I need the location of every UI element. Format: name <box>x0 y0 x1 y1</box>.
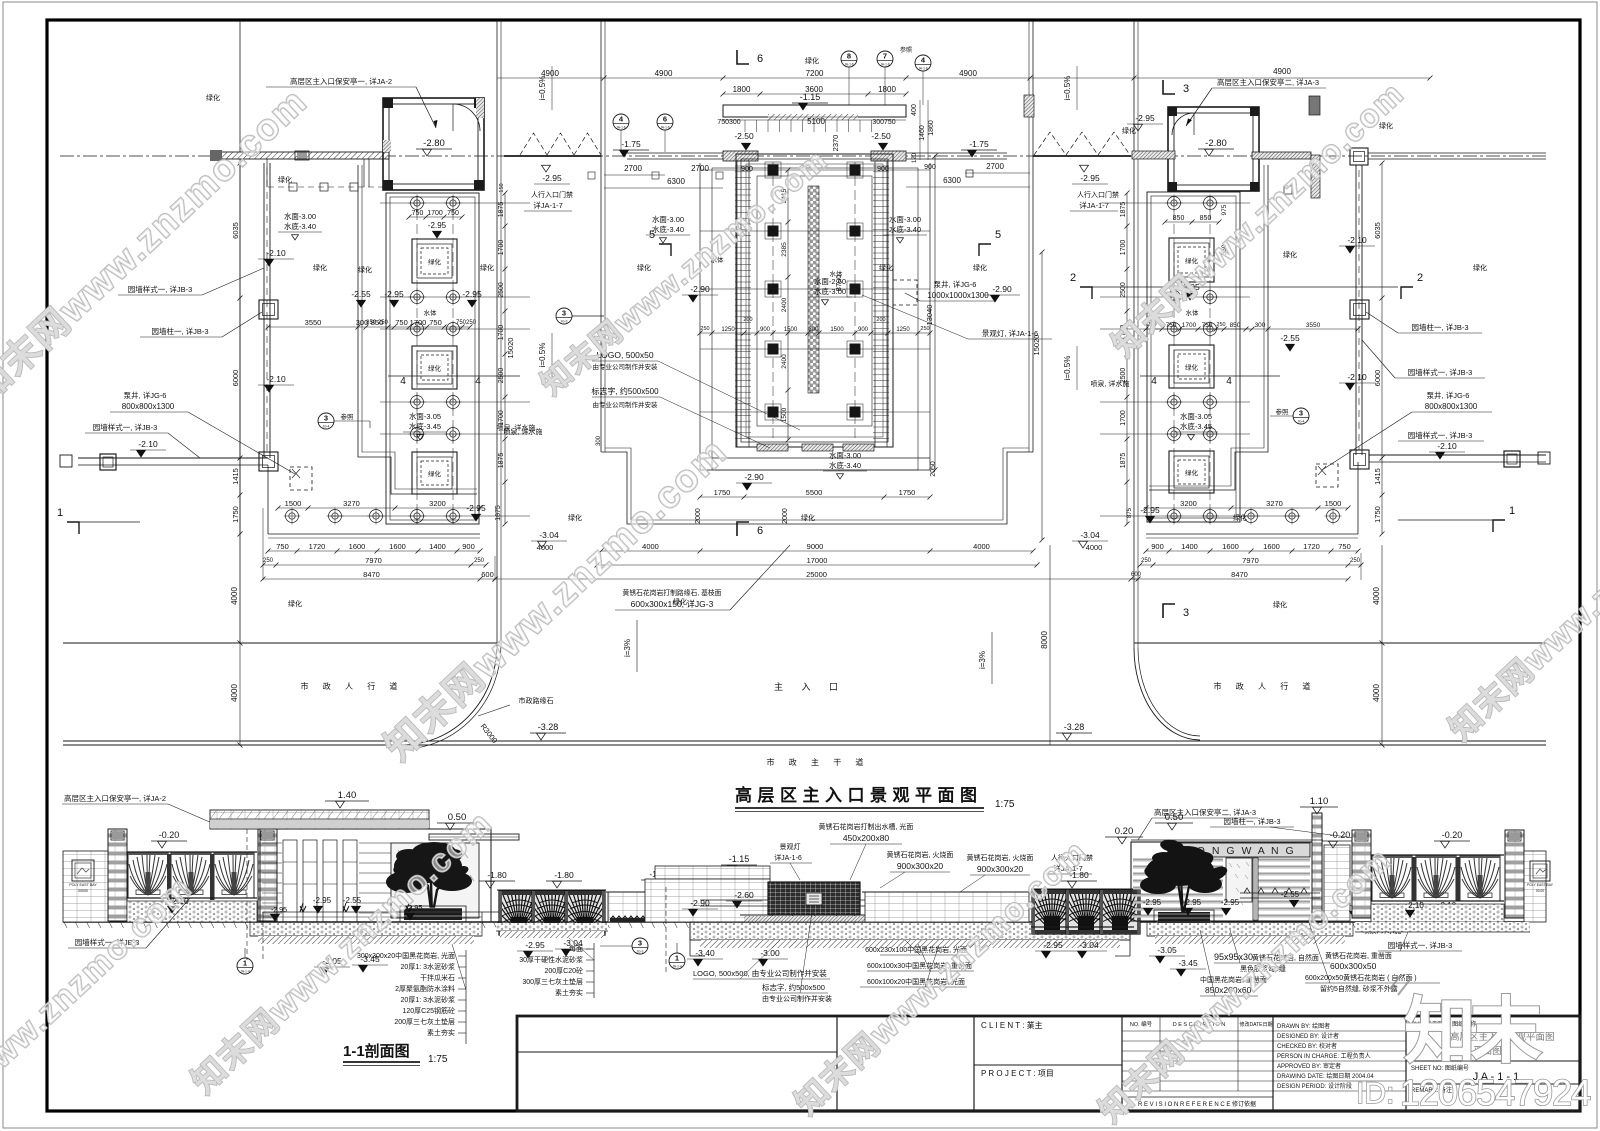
svg-text:水面-3.00: 水面-3.00 <box>829 450 861 460</box>
dim row 4000/9000/4000 bottom center <box>601 550 1033 552</box>
detail bubbles 8 7 4 <box>841 51 857 67</box>
right court centre dash lines <box>1173 196 1175 522</box>
svg-text:9000: 9000 <box>807 542 824 551</box>
svg-text:高层区主入口保安亭一, 详JA-2: 高层区主入口保安亭一, 详JA-2 <box>64 793 166 803</box>
svg-text:高层区主入口保安亭一, 详JA-2: 高层区主入口保安亭一, 详JA-2 <box>290 76 392 86</box>
mid-right low wall <box>865 892 1029 922</box>
svg-text:绿化: 绿化 <box>480 263 494 272</box>
svg-text:-2.60: -2.60 <box>734 890 754 900</box>
svg-text:120厚C25钢筋砼: 120厚C25钢筋砼 <box>402 1006 455 1015</box>
svg-text:-2.95: -2.95 <box>1221 898 1240 907</box>
svg-text:5500: 5500 <box>806 488 823 497</box>
svg-text:LOGO, 500x500, 由专业公司制作并安装: LOGO, 500x500, 由专业公司制作并安装 <box>693 968 827 978</box>
center curb lower corners <box>601 452 1033 524</box>
svg-text:6: 6 <box>757 525 763 537</box>
svg-text:1860: 1860 <box>928 120 935 136</box>
svg-text:由专业公司制作并安装: 由专业公司制作并安装 <box>593 362 659 371</box>
underground basin center (big footing) <box>690 922 1130 940</box>
svg-text:-2.95: -2.95 <box>313 896 332 905</box>
svg-text:DRAWN BY: 绘图者: DRAWN BY: 绘图者 <box>1277 1022 1330 1030</box>
building window speckled <box>1226 858 1252 902</box>
svg-text:200厚三七灰土垫层: 200厚三七灰土垫层 <box>394 1017 455 1026</box>
svg-text:4: 4 <box>400 376 406 387</box>
svg-text:详JA-1-7: 详JA-1-7 <box>533 200 563 210</box>
svg-text:绿化: 绿化 <box>568 513 582 522</box>
svg-text:-2.95: -2.95 <box>1135 113 1155 123</box>
svg-text:6: 6 <box>757 53 763 65</box>
canopy support columns <box>363 159 365 187</box>
guard house body <box>260 829 491 922</box>
svg-text:JA-1-6: JA-1-6 <box>616 126 626 130</box>
water plants in basin <box>300 903 412 912</box>
svg-text:4900: 4900 <box>1273 67 1291 76</box>
right axis post (square) <box>1350 148 1368 165</box>
wall cap line <box>606 891 727 893</box>
center LOGO feature wall (dark) <box>768 882 860 915</box>
svg-text:3: 3 <box>1183 83 1189 95</box>
svg-text:详JA-1-7: 详JA-1-7 <box>1079 200 1109 210</box>
left green curb boundary L-shape <box>358 165 477 494</box>
svg-text:园墙样式一, 详JB-3: 园墙样式一, 详JB-3 <box>1388 940 1453 950</box>
low wall under left fence <box>127 901 257 922</box>
svg-text:1:75: 1:75 <box>428 1054 448 1065</box>
svg-text:300: 300 <box>1255 322 1266 329</box>
svg-text:水底-3.45: 水底-3.45 <box>1180 421 1212 431</box>
svg-text:2050: 2050 <box>930 461 937 477</box>
svg-text:APPROVED BY: 审定者: APPROVED BY: 审定者 <box>1277 1062 1341 1070</box>
svg-text:景观灯: 景观灯 <box>780 842 801 851</box>
right bottom wall end post <box>1504 451 1520 467</box>
circled 1 detail left <box>237 958 253 974</box>
svg-text:园墙柱一, 详JB-3: 园墙柱一, 详JB-3 <box>1223 816 1280 826</box>
svg-text:1500: 1500 <box>781 407 788 422</box>
svg-text:1500: 1500 <box>784 327 798 333</box>
svg-text:高层区主入口保安亭二, 详JA-3: 高层区主入口保安亭二, 详JA-3 <box>1217 77 1319 87</box>
svg-text:6000: 6000 <box>1373 370 1382 387</box>
dim row 250 1250 250/900/1500/300/1500/900/250 1250 250 <box>700 332 930 334</box>
svg-text:1400: 1400 <box>429 542 446 551</box>
svg-text:知末: 知末 <box>1404 992 1542 1072</box>
svg-text:园墙样式一, 详JB-3: 园墙样式一, 详JB-3 <box>93 422 158 432</box>
svg-text:1875: 1875 <box>498 453 505 469</box>
svg-text:1: 1 <box>57 507 63 519</box>
svg-text:P R O J E C T : 项目: P R O J E C T : 项目 <box>981 1069 1054 1078</box>
svg-text:1600: 1600 <box>349 542 366 551</box>
svg-text:水面-3.00: 水面-3.00 <box>284 211 316 221</box>
right bottom dim rows <box>1146 507 1348 509</box>
client/project divider <box>974 1064 1122 1066</box>
driveway edge vertical right (double) <box>1133 20 1135 648</box>
curb curve left R3000 <box>402 645 497 745</box>
axis wall hatched segment left <box>723 151 758 161</box>
right guard house door arc <box>1172 113 1194 135</box>
svg-text:2500: 2500 <box>1120 282 1127 298</box>
svg-text:园墙柱一, 详JB-3: 园墙柱一, 详JB-3 <box>151 326 208 336</box>
svg-text:250: 250 <box>1216 322 1225 328</box>
svg-text:标志字, 约500x500: 标志字, 约500x500 <box>591 386 659 396</box>
svg-text:600x300x50: 600x300x50 <box>1330 961 1377 971</box>
svg-text:PERSON IN CHARGE: 工程负责人: PERSON IN CHARGE: 工程负责人 <box>1277 1052 1371 1060</box>
tiny squares plan <box>966 170 973 177</box>
center footing side walls <box>690 922 1130 956</box>
road main edge double line <box>63 740 1546 742</box>
svg-text:POLY EAST BAY: POLY EAST BAY <box>1527 883 1554 887</box>
svg-text:参照: 参照 <box>900 46 912 54</box>
level -2.95 axis left <box>542 165 551 172</box>
svg-text:7: 7 <box>883 52 887 61</box>
axis thin walls to curbs <box>627 152 723 154</box>
right court fountain jets <box>1168 197 1181 210</box>
svg-text:1800: 1800 <box>878 85 896 94</box>
svg-text:1206547924: 1206547924 <box>1400 1072 1590 1113</box>
svg-text:绿化: 绿化 <box>1273 600 1287 609</box>
svg-text:i=0.5%: i=0.5% <box>538 76 547 101</box>
west wall small post2 <box>60 455 72 467</box>
svg-text:3200: 3200 <box>1180 499 1197 508</box>
center green curb verticals <box>600 21 602 452</box>
circled 1 detail center <box>669 953 685 969</box>
svg-text:2厚聚氨酯防水涂料: 2厚聚氨酯防水涂料 <box>395 984 455 993</box>
svg-text:2: 2 <box>1417 272 1423 284</box>
svg-text:400: 400 <box>911 104 918 116</box>
right dim col 6035/6000/1415/1750 <box>1381 163 1383 534</box>
guard house roof band <box>210 810 429 829</box>
pump well dashed square <box>290 467 312 490</box>
svg-text:2500: 2500 <box>1120 368 1127 384</box>
svg-text:250: 250 <box>700 326 709 332</box>
svg-text:750: 750 <box>1202 322 1213 329</box>
dim row bottom 1500/3270/3200 <box>278 507 480 509</box>
svg-text:300厚三七灰土垫层: 300厚三七灰土垫层 <box>522 977 583 986</box>
svg-text:3: 3 <box>324 414 328 423</box>
svg-text:1875: 1875 <box>1120 202 1127 218</box>
svg-text:水底-3.40: 水底-3.40 <box>829 460 861 470</box>
svg-text:-3.28: -3.28 <box>1064 722 1085 732</box>
svg-text:900: 900 <box>858 327 869 333</box>
svg-text:-2.95: -2.95 <box>542 173 562 183</box>
DONGWANG pillar right <box>1312 813 1322 921</box>
planter box 2 left <box>412 346 457 389</box>
svg-text:13040: 13040 <box>925 305 934 326</box>
svg-text:-2.95: -2.95 <box>1183 898 1202 907</box>
svg-text:绿化: 绿化 <box>288 599 302 608</box>
svg-text:-2.80: -2.80 <box>423 138 445 149</box>
fence panels left (3 fans) <box>128 852 168 898</box>
svg-text:3: 3 <box>638 939 642 948</box>
svg-text:1700: 1700 <box>498 240 505 256</box>
svg-text:1415: 1415 <box>231 468 240 485</box>
center enclosure mid verticals <box>699 163 701 470</box>
svg-text:1500: 1500 <box>830 327 844 333</box>
svg-text:JA-1-6: JA-1-6 <box>660 126 670 130</box>
svg-text:-2.95: -2.95 <box>1140 505 1160 515</box>
svg-text:1700: 1700 <box>427 210 443 217</box>
svg-text:市 政 人 行 道: 市 政 人 行 道 <box>1214 681 1317 691</box>
svg-text:1700: 1700 <box>410 318 427 327</box>
svg-text:i=0.5%: i=0.5% <box>538 343 547 368</box>
svg-text:-1.80: -1.80 <box>554 870 574 880</box>
svg-text:6300: 6300 <box>667 177 685 186</box>
svg-text:4: 4 <box>1151 376 1157 387</box>
svg-text:8470: 8470 <box>363 570 380 579</box>
svg-text:900: 900 <box>924 164 936 171</box>
right dims 850/850 + 975/650 <box>1165 221 1219 223</box>
svg-text:人行入口门禁: 人行入口门禁 <box>531 190 573 199</box>
svg-text:素土夯实: 素土夯实 <box>555 988 583 997</box>
svg-text:绿化: 绿化 <box>206 93 220 102</box>
svg-text:6: 6 <box>663 115 667 124</box>
left perimeter wall vertical (double with dash) <box>263 163 265 458</box>
basin walls center <box>700 900 930 906</box>
building column mid <box>1253 858 1258 920</box>
svg-text:-0.20: -0.20 <box>159 830 180 840</box>
water spouts under logo wall <box>772 915 856 922</box>
section marker 3 top right <box>1163 80 1175 94</box>
svg-text:-2.50: -2.50 <box>734 131 754 141</box>
building stone bands <box>1133 859 1223 862</box>
svg-text:-2.95: -2.95 <box>271 907 287 914</box>
svg-text:1700: 1700 <box>1120 410 1127 426</box>
svg-text:2700: 2700 <box>691 164 709 173</box>
svg-text:7200: 7200 <box>806 69 824 78</box>
svg-text:1700: 1700 <box>498 410 505 426</box>
svg-text:7970: 7970 <box>1242 556 1259 565</box>
left guard house outer wall <box>383 98 484 190</box>
svg-text:900: 900 <box>462 542 475 551</box>
small rect pier right of house <box>1024 95 1034 117</box>
right row dims 250750/1700/750250 850 300/3550 <box>1146 328 1358 330</box>
svg-text:-1.80: -1.80 <box>487 870 507 880</box>
right mid gates (3 fans) <box>1032 890 1072 934</box>
planter under tree 1 <box>404 908 462 920</box>
svg-text:1600: 1600 <box>1222 542 1239 551</box>
svg-text:绿化: 绿化 <box>805 56 819 65</box>
svg-text:4900: 4900 <box>655 69 673 78</box>
svg-text:850: 850 <box>1230 322 1241 329</box>
svg-text:水底-3.40: 水底-3.40 <box>284 221 316 231</box>
svg-text:120: 120 <box>912 152 918 163</box>
svg-text:1720: 1720 <box>309 542 326 551</box>
svg-text:-3.04: -3.04 <box>539 530 559 540</box>
svg-text:600: 600 <box>481 570 494 579</box>
svg-text:水底-3.45: 水底-3.45 <box>409 421 441 431</box>
svg-text:-2.90: -2.90 <box>744 472 764 482</box>
svg-text:JA-1-6: JA-1-6 <box>918 67 928 71</box>
svg-text:1-1剖面图: 1-1剖面图 <box>343 1042 410 1060</box>
dim col left boundary 6035/6000/1415/1750 <box>239 163 241 534</box>
svg-text:留约5自然缝, 砂浆不外露: 留约5自然缝, 砂浆不外露 <box>1320 984 1398 993</box>
svg-text:1800: 1800 <box>733 85 751 94</box>
right green curb boundary L-shape <box>1149 165 1268 490</box>
svg-text:POLY EAST BAY: POLY EAST BAY <box>69 883 97 887</box>
svg-text:JA-1-6: JA-1-6 <box>844 63 854 67</box>
svg-text:1000x1000x1300: 1000x1000x1300 <box>927 291 989 300</box>
grid row lines through court <box>380 202 530 204</box>
svg-text:-2.10: -2.10 <box>1347 235 1367 245</box>
dim row 750/1720/1600/1600/1400/900 <box>268 550 480 552</box>
svg-text:-3.28: -3.28 <box>538 722 559 732</box>
right canopy upper block <box>1309 96 1320 115</box>
svg-text:250: 250 <box>1350 558 1361 564</box>
right planter strip <box>1240 893 1320 898</box>
svg-text:850: 850 <box>1200 215 1212 222</box>
driveway edge vertical left (double) <box>496 20 498 645</box>
svg-text:JA-1-4: JA-1-4 <box>240 970 250 974</box>
POLY EAST BAY sign <box>72 860 94 881</box>
svg-text:由专业公司制作并安装: 由专业公司制作并安装 <box>593 400 659 409</box>
right wall post low <box>1350 450 1369 469</box>
svg-text:ID:: ID: <box>1356 1077 1394 1110</box>
svg-text:-2.95: -2.95 <box>1143 898 1162 907</box>
svg-text:水面-3.05: 水面-3.05 <box>1180 411 1212 421</box>
DONGWANG sign band <box>1168 843 1310 857</box>
svg-text:1875: 1875 <box>495 505 502 521</box>
canopy end block <box>210 150 222 161</box>
svg-text:1.10: 1.10 <box>1310 796 1329 807</box>
svg-text:绿化: 绿化 <box>879 263 893 272</box>
svg-text:人行入口门禁: 人行入口门禁 <box>1077 190 1119 199</box>
svg-text:6035: 6035 <box>231 222 240 239</box>
svg-text:1700: 1700 <box>1120 240 1127 256</box>
svg-text:3: 3 <box>1183 607 1189 619</box>
svg-text:1700: 1700 <box>498 325 505 341</box>
house wall bands <box>262 842 282 844</box>
guard house corner posts <box>383 98 393 108</box>
svg-text:水底-3.40: 水底-3.40 <box>889 224 921 234</box>
svg-text:1415: 1415 <box>1373 468 1382 485</box>
svg-text:DESIGNED BY: 设计者: DESIGNED BY: 设计者 <box>1277 1032 1339 1040</box>
svg-text:2500: 2500 <box>498 368 505 384</box>
svg-text:1500: 1500 <box>1325 499 1342 508</box>
right canopy hatched bar <box>1252 152 1311 159</box>
svg-text:1: 1 <box>675 954 679 963</box>
guard house flat canopy 0.50 <box>429 834 519 840</box>
dim row 750/1700/750 left court <box>409 216 462 218</box>
svg-text:-2.10: -2.10 <box>1347 372 1367 382</box>
svg-text:水体: 水体 <box>424 308 438 317</box>
svg-text:JG-4: JG-4 <box>1298 420 1305 424</box>
svg-text:25000: 25000 <box>806 570 827 579</box>
circled 3 mid <box>632 938 648 954</box>
curb curve right <box>1134 648 1200 740</box>
svg-text:750: 750 <box>395 318 408 327</box>
svg-text:17000: 17000 <box>807 556 828 565</box>
svg-text:6300: 6300 <box>943 176 961 185</box>
fence joint posts left <box>167 854 172 900</box>
planter box 1 left <box>412 239 457 283</box>
logo wall segments bottom <box>757 444 788 451</box>
svg-text:-2.95: -2.95 <box>525 940 545 950</box>
svg-text:市 政 主 干 道: 市 政 主 干 道 <box>767 757 870 767</box>
svg-text:高层区主入口景观平面图: 高层区主入口景观平面图 <box>735 785 983 805</box>
svg-text:1750: 1750 <box>231 506 240 523</box>
svg-text:-3.40: -3.40 <box>695 948 715 958</box>
section ground line <box>63 921 1530 923</box>
right wall post mid <box>1350 300 1369 319</box>
top dim row 1800/3600/1800 <box>723 93 906 95</box>
svg-text:由专业公司制作并安装: 由专业公司制作并安装 <box>762 994 832 1003</box>
svg-text:-3.04: -3.04 <box>1079 940 1099 950</box>
svg-text:975: 975 <box>1221 204 1228 215</box>
dim row 250/7970/250 <box>263 564 486 566</box>
svg-text:黄锈石花岗岩, 火烧面: 黄锈石花岗岩, 火烧面 <box>967 853 1034 862</box>
svg-text:2700: 2700 <box>624 164 642 173</box>
svg-text:600: 600 <box>1131 572 1142 578</box>
svg-text:850: 850 <box>1173 215 1185 222</box>
svg-text:CHECKED BY: 校对者: CHECKED BY: 校对者 <box>1277 1042 1337 1050</box>
svg-text:1: 1 <box>1509 505 1515 517</box>
low wall under right fence <box>1371 904 1504 922</box>
svg-text:泵井, 详JG-6: 泵井, 详JG-6 <box>934 279 977 289</box>
svg-text:-3.45: -3.45 <box>1178 958 1198 968</box>
svg-text:i=3%: i=3% <box>978 651 987 669</box>
sidewalk top edge left <box>63 642 500 644</box>
svg-text:1875: 1875 <box>498 202 505 218</box>
dim 25000 <box>495 578 1138 580</box>
svg-text:-3.04: -3.04 <box>563 938 583 948</box>
svg-text:园墙柱一, 详JB-3: 园墙柱一, 详JB-3 <box>1411 322 1468 332</box>
dim 8000 vertical <box>1049 545 1051 745</box>
svg-text:3550: 3550 <box>305 318 322 327</box>
svg-text:750250: 750250 <box>456 320 477 326</box>
svg-text:250: 250 <box>474 558 485 564</box>
svg-text:绿化: 绿化 <box>801 513 815 522</box>
low wall mid-left <box>608 892 727 922</box>
svg-text:4000: 4000 <box>973 542 990 551</box>
dashed projection lines left <box>246 829 248 960</box>
svg-text:4000: 4000 <box>537 543 554 552</box>
svg-text:修改DATE日期: 修改DATE日期 <box>1240 1021 1273 1028</box>
svg-text:水面-3.05: 水面-3.05 <box>409 411 441 421</box>
center canopy slab <box>723 105 906 117</box>
svg-text:00-00: 00-00 <box>1536 889 1544 893</box>
level -2.95 axis right <box>1080 165 1089 172</box>
svg-text:800x800x1300: 800x800x1300 <box>122 402 175 411</box>
svg-text:1250: 1250 <box>721 327 735 333</box>
svg-text:1750: 1750 <box>714 488 731 497</box>
low planter wall right of pillar <box>1324 845 1350 921</box>
west wall end post <box>100 454 116 470</box>
dim 13040 vertical <box>934 156 936 470</box>
circled 3 ref left <box>318 413 334 429</box>
gate threshold thick line left <box>504 155 601 157</box>
dim row 3550/300 850 250 750/1700/750 250 <box>268 326 470 328</box>
svg-text:300: 300 <box>808 327 819 333</box>
svg-text:绿化: 绿化 <box>1473 263 1487 272</box>
planter under tree 2 <box>1158 912 1210 926</box>
circled 3 center <box>556 308 572 324</box>
pool grid rows <box>700 169 930 171</box>
title block verticals <box>836 1016 838 1111</box>
left empty cell divider <box>517 1051 837 1053</box>
svg-text:3550: 3550 <box>1306 322 1321 329</box>
svg-text:2000: 2000 <box>695 508 702 524</box>
svg-text:JG-3: JG-3 <box>561 320 568 324</box>
section pillar B <box>258 829 277 921</box>
svg-text:900x300x20: 900x300x20 <box>897 861 944 871</box>
svg-text:750: 750 <box>429 318 442 327</box>
svg-text:-2.95: -2.95 <box>384 289 404 299</box>
svg-text:1750: 1750 <box>1373 506 1382 523</box>
svg-text:园墙样式一, 详JB-3: 园墙样式一, 详JB-3 <box>1408 367 1473 377</box>
svg-text:8470: 8470 <box>1231 570 1248 579</box>
svg-text:300x300x20中国黑花岗岩, 光面: 300x300x20中国黑花岗岩, 光面 <box>357 951 455 960</box>
svg-text:2000: 2000 <box>782 508 789 524</box>
right fence panels (3 fans) <box>1372 855 1412 901</box>
svg-text:参照: 参照 <box>1276 407 1290 416</box>
DONGWANG footing <box>1147 922 1353 936</box>
section tree 2 (DONGWANG) <box>1140 838 1229 916</box>
